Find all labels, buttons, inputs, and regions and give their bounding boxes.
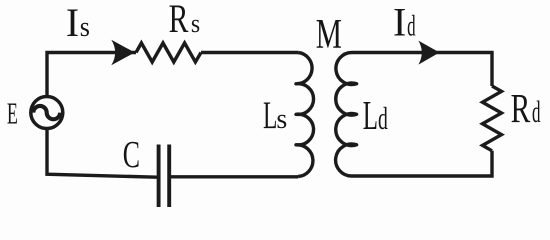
svg-text:d: d <box>378 100 388 136</box>
wire top-left: left vertical + top horizontal to arrow <box>47 53 136 98</box>
svg-text:L: L <box>263 93 277 137</box>
svg-text:d: d <box>532 96 541 129</box>
resistor Rd zigzag <box>483 86 502 151</box>
arrow Id head <box>418 41 439 65</box>
svg-text:R: R <box>511 85 531 131</box>
resistor Rs zigzag <box>136 43 201 62</box>
svg-text:d: d <box>407 11 416 43</box>
svg-text:s: s <box>80 10 90 43</box>
svg-text:M: M <box>316 11 342 57</box>
wire Rs to Ls top <box>201 51 298 54</box>
svg-text:s: s <box>276 104 287 135</box>
svg-text:R: R <box>169 0 189 41</box>
wire left-bottom: source to corner, sloped bottom to capacitor <box>47 128 157 177</box>
svg-text:C: C <box>123 134 140 176</box>
capacitor C right plate <box>167 145 171 208</box>
wire capacitor to Ls bottom <box>171 175 298 178</box>
arrow Is head <box>111 40 135 65</box>
svg-text:L: L <box>363 94 378 139</box>
svg-text:s: s <box>191 10 200 38</box>
ac source sine wave <box>33 106 60 119</box>
svg-text:I: I <box>66 1 79 45</box>
svg-text:I: I <box>393 1 406 45</box>
inductor Ld coil (4 lobes bulging left) <box>336 52 357 176</box>
wire Ld top to right corner and down <box>352 53 492 87</box>
capacitor C left plate <box>157 145 161 208</box>
ac source E circle <box>31 97 63 129</box>
wire Rd bottom to Ld bottom <box>352 151 492 176</box>
svg-text:E: E <box>7 98 18 131</box>
inductor Ls coil (4 lobes bulging right) <box>296 53 314 177</box>
